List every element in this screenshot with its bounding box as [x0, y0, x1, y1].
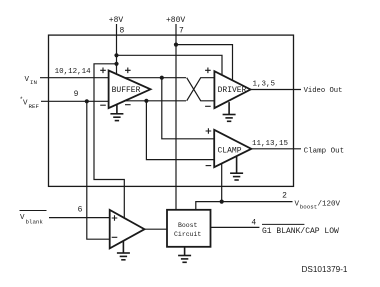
svg-text:6: 6 — [78, 205, 83, 214]
wire +80V vertical pin 7 down to Boost Circuit — [175, 24, 177, 210]
wire +8V vertical pin 8 down to BUFFER power pin — [116, 24, 118, 74]
wire crossover upper-to-lower — [187, 78, 215, 101]
svg-text:11,13,15: 11,13,15 — [252, 140, 289, 148]
svg-text:9: 9 — [74, 90, 79, 99]
BUFFER - input marker — [100, 104, 106, 106]
svg-text:+8V: +8V — [109, 16, 124, 25]
svg-text:BUFFER: BUFFER — [112, 86, 141, 95]
BUFFER + input marker — [100, 68, 106, 74]
ground blank amp — [117, 241, 130, 260]
svg-text:DRIVER: DRIVER — [218, 86, 247, 95]
CLAMP - input marker — [206, 165, 212, 167]
node lower output to CLAMP - — [144, 99, 148, 103]
ground BUFFER — [110, 104, 123, 120]
svg-text:Boost: Boost — [178, 222, 198, 229]
wire G1 BLANK output pin 4 — [211, 226, 260, 228]
svg-text:8: 8 — [120, 27, 125, 36]
wire V_boost output pin 2 — [196, 202, 293, 210]
svg-text:4: 4 — [251, 219, 256, 228]
BUFFER - output marker — [125, 104, 131, 106]
svg-text:7: 7 — [179, 27, 184, 36]
svg-text:2: 2 — [282, 192, 287, 201]
svg-text:DS101379-1: DS101379-1 — [302, 265, 348, 274]
wire CLAMP to V_boost node — [221, 164, 223, 202]
svg-text:G1 BLANK/CAP LOW: G1 BLANK/CAP LOW — [262, 227, 339, 236]
overline G1 BLANK — [262, 223, 304, 225]
ground Boost Circuit — [178, 247, 191, 262]
svg-text:V: V — [23, 100, 28, 108]
blank amp - input marker — [112, 236, 118, 238]
DRIVER - input marker — [205, 105, 211, 107]
node upper output to CLAMP + — [160, 76, 164, 80]
node V_REF junction to blank amp — [85, 99, 89, 103]
svg-text:V: V — [25, 76, 30, 84]
node +8V junction to blank-amp rail — [114, 62, 118, 66]
wire V_IN to BUFFER + input — [40, 77, 109, 79]
wire V_REF branch down to blank amp - input — [87, 101, 110, 239]
wire lower output down to CLAMP - input — [146, 101, 214, 160]
V_REF input label — [20, 96, 40, 110]
wire CLAMP output to Clamp Out — [251, 148, 301, 150]
op-amp DRIVER — [214, 71, 250, 108]
wire +8V rail left and down to blank amp power pin — [94, 64, 124, 218]
DRIVER + input marker — [205, 68, 211, 74]
wire BUFFER lower output to crossover — [125, 100, 186, 102]
svg-text:Circuit: Circuit — [174, 231, 201, 238]
IC package boundary box — [49, 35, 294, 186]
svg-text:1,3,5: 1,3,5 — [253, 81, 276, 89]
svg-text:V: V — [295, 201, 300, 209]
op-amp blank amplifier — [110, 210, 145, 249]
svg-text:+80V: +80V — [166, 16, 185, 25]
ground DRIVER — [223, 102, 236, 121]
CLAMP + input marker — [206, 128, 212, 134]
wire V_REF to BUFFER - input — [41, 100, 109, 102]
svg-text:Clamp Out: Clamp Out — [304, 147, 345, 155]
wire DRIVER output to Video Out — [251, 89, 302, 91]
svg-text:IN: IN — [30, 79, 37, 86]
wire +8V rail to DRIVER power pin — [117, 55, 223, 75]
svg-text:10,12,14: 10,12,14 — [55, 68, 92, 76]
ground CLAMP — [230, 156, 243, 180]
op-amp BUFFER — [109, 71, 151, 109]
node +8V junction to DRIVER rail — [114, 53, 118, 57]
svg-text:Video Out: Video Out — [304, 87, 343, 95]
wire crossover lower-to-upper — [187, 78, 215, 101]
wire upper output down to CLAMP + input — [162, 78, 214, 139]
overline V_blank — [20, 210, 47, 212]
V_IN input label — [25, 76, 38, 86]
V_boost/120V label — [295, 201, 341, 211]
wire +80V rail to DRIVER power pin — [176, 45, 233, 81]
op-amp CLAMP — [214, 130, 251, 167]
node +80V junction to DRIVER rail — [174, 43, 178, 47]
svg-text:V: V — [20, 214, 25, 222]
Boost Circuit block — [167, 210, 211, 247]
svg-text:boost: boost — [300, 204, 317, 211]
BUFFER + output marker — [125, 68, 131, 74]
wire BUFFER upper output to crossover — [124, 77, 186, 79]
wire blank amp output to Boost Circuit — [145, 228, 168, 230]
svg-text:blank: blank — [26, 219, 44, 226]
wire V_blank to blank amp + input — [49, 217, 110, 219]
blank amp + input marker — [112, 215, 118, 221]
node V_boost junction — [220, 200, 224, 204]
svg-text:REF: REF — [29, 103, 40, 110]
svg-text:CLAMP: CLAMP — [217, 147, 241, 156]
V_blank input label — [20, 214, 43, 226]
svg-text:/120V: /120V — [318, 201, 341, 209]
